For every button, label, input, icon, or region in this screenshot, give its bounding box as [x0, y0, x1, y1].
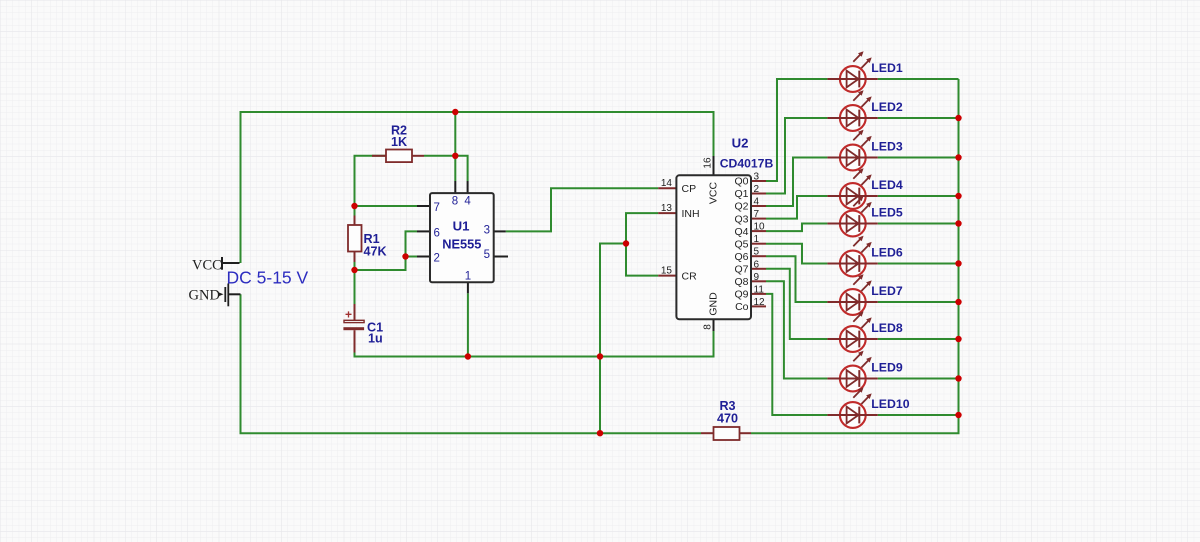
svg-text:12: 12 — [754, 297, 766, 308]
svg-text:8: 8 — [703, 324, 714, 330]
LED1 — [827, 51, 902, 92]
LED3 — [827, 130, 902, 171]
svg-text:Q4: Q4 — [734, 226, 748, 238]
svg-text:U1: U1 — [453, 219, 470, 234]
svg-text:LED2: LED2 — [871, 100, 903, 114]
wire U2 Q9 to LED10 — [766, 294, 827, 415]
svg-text:GND: GND — [189, 288, 220, 304]
svg-text:GND: GND — [708, 292, 720, 316]
svg-text:470: 470 — [717, 412, 738, 426]
svg-text:6: 6 — [434, 227, 440, 239]
svg-text:1: 1 — [465, 270, 471, 282]
LED6 — [827, 236, 902, 277]
wire U2 Q6 to LED7 — [766, 256, 827, 302]
svg-text:INH: INH — [682, 208, 700, 220]
wire LED2 cathode to bus — [878, 117, 959, 119]
svg-text:Q8: Q8 — [734, 276, 748, 288]
wire R2 left to R1 top / U1 pin7 — [355, 156, 418, 206]
wire LED9 cathode to bus — [878, 378, 959, 380]
junction LED5 bus — [955, 220, 961, 226]
svg-text:CR: CR — [682, 270, 698, 282]
svg-text:LED1: LED1 — [871, 61, 903, 75]
svg-text:DC 5-15 V: DC 5-15 V — [227, 268, 309, 288]
svg-text:LED6: LED6 — [871, 245, 903, 259]
wire node to U1 pin6 — [355, 231, 418, 270]
svg-text:CP: CP — [682, 183, 697, 195]
wire LED5 cathode to bus — [878, 223, 959, 225]
wire LED7 cathode to bus — [878, 301, 959, 303]
wire LED10 cathode to bus — [878, 414, 959, 416]
wire U2 Q1 to LED2 — [766, 118, 827, 194]
svg-text:+: + — [345, 308, 352, 322]
wire bottom ground rail left — [241, 294, 702, 433]
svg-text:LED7: LED7 — [871, 284, 903, 298]
wire U2 Q4 to LED5 — [766, 224, 827, 232]
junction LED8 bus — [955, 336, 961, 342]
svg-text:LED8: LED8 — [871, 321, 903, 335]
junction LED6 bus — [955, 260, 961, 266]
junction LED10 bus — [955, 412, 961, 418]
junction VCC / R2 / U1-4 — [452, 153, 458, 159]
junction LED3 bus — [955, 154, 961, 160]
svg-text:3: 3 — [754, 172, 760, 183]
junction LED2 bus — [955, 115, 961, 121]
svg-text:Q5: Q5 — [734, 238, 748, 250]
junction R1 / C1 node — [351, 267, 357, 273]
svg-text:7: 7 — [754, 209, 760, 220]
LED7 — [827, 274, 902, 315]
svg-text:14: 14 — [661, 178, 673, 189]
wire U2 Q7 to LED8 — [766, 269, 827, 339]
LED4 — [827, 168, 902, 209]
junction VCC top / U1-8 — [452, 109, 458, 115]
wire U2 Q5 to LED6 — [766, 244, 827, 264]
svg-text:15: 15 — [661, 265, 673, 276]
wire VCC to U1 pin4 — [455, 156, 467, 181]
svg-text:6: 6 — [754, 259, 760, 270]
svg-text:2: 2 — [434, 253, 440, 265]
wire U2 Q2 to LED3 — [766, 158, 827, 207]
svg-text:Q2: Q2 — [734, 201, 748, 213]
wire R1 top stub gap — [354, 206, 356, 216]
svg-text:5: 5 — [754, 247, 760, 258]
IC U2 CD4017B — [658, 136, 773, 332]
wire U2 INH to CR tie — [626, 213, 658, 276]
svg-text:Co: Co — [735, 301, 749, 313]
junction LED4 bus — [955, 193, 961, 199]
svg-text:2: 2 — [754, 184, 760, 195]
junction LED9 bus — [955, 375, 961, 381]
svg-text:5: 5 — [484, 249, 490, 261]
svg-text:LED10: LED10 — [871, 397, 909, 411]
svg-text:Q0: Q0 — [734, 176, 748, 188]
resistor R1 (47K) — [348, 216, 387, 263]
resistor R3 (470) — [701, 399, 751, 440]
svg-text:16: 16 — [703, 157, 714, 169]
wire U1 pin1 to mid ground — [467, 293, 469, 356]
wire bottom ground rail right to LED bus — [751, 79, 959, 433]
port VCC — [192, 257, 240, 274]
svg-text:1u: 1u — [368, 332, 383, 346]
wire R1 bottom to node — [354, 262, 356, 270]
LED10 — [827, 387, 909, 428]
svg-text:Q9: Q9 — [734, 289, 748, 301]
wire U1 pin3 to U2 CP — [506, 188, 658, 231]
svg-text:LED3: LED3 — [871, 139, 903, 153]
junction U1 pin2/6 node — [402, 253, 408, 259]
svg-text:LED5: LED5 — [871, 205, 903, 219]
svg-text:4: 4 — [754, 197, 760, 208]
LED5 — [827, 196, 902, 237]
svg-text:13: 13 — [661, 203, 673, 214]
svg-text:Q3: Q3 — [734, 213, 748, 225]
svg-text:8: 8 — [452, 196, 458, 208]
wire LED1 cathode to bus — [878, 78, 959, 80]
svg-text:7: 7 — [434, 202, 440, 214]
wire C1 bottom to mid ground — [355, 331, 714, 357]
wire INH/CR tie to ground rail — [600, 244, 626, 434]
svg-text:Q7: Q7 — [734, 264, 748, 276]
op-amp/timer U1 NE555 — [417, 181, 508, 293]
wire LED4 cathode to bus — [878, 195, 959, 197]
svg-text:1K: 1K — [391, 135, 407, 149]
junction LED7 bus — [955, 299, 961, 305]
svg-text:VCC: VCC — [708, 181, 720, 204]
svg-text:1: 1 — [754, 234, 760, 245]
wire LED6 cathode to bus — [878, 263, 959, 265]
svg-text:9: 9 — [754, 272, 760, 283]
wire VCC branch to U1 pins 8/4 — [454, 112, 456, 181]
svg-text:U2: U2 — [732, 136, 749, 151]
junction INH/CR tie — [623, 240, 629, 246]
junction mid ground / rail — [597, 353, 603, 359]
svg-text:47K: 47K — [364, 245, 387, 259]
svg-text:CD4017B: CD4017B — [720, 156, 774, 170]
svg-text:NE555: NE555 — [442, 237, 481, 252]
LED9 — [827, 351, 902, 392]
capacitor C1 (1u, polarized) — [343, 304, 383, 353]
svg-text:10: 10 — [754, 222, 766, 233]
svg-text:LED9: LED9 — [871, 360, 903, 374]
junction R2 / R1 / U1-7 — [351, 203, 357, 209]
wire LED3 cathode to bus — [878, 157, 959, 159]
wire U2 Q0 to LED1 — [766, 79, 827, 181]
svg-text:3: 3 — [484, 225, 490, 237]
LED8 — [827, 311, 902, 352]
junction U1 pin1 ground — [465, 353, 471, 359]
svg-text:VCC: VCC — [192, 258, 222, 274]
svg-text:4: 4 — [464, 196, 471, 208]
port GND — [189, 284, 241, 307]
wire node to C1 top — [354, 270, 356, 304]
LED2 — [827, 90, 902, 131]
svg-text:11: 11 — [754, 284, 765, 295]
svg-text:Q6: Q6 — [734, 251, 748, 263]
wire R2 right to VCC — [424, 155, 455, 157]
junction bottom rail — [597, 430, 603, 436]
wire VCC rail top — [241, 112, 714, 263]
wire node to U1 pin2 — [406, 256, 418, 258]
wire LED8 cathode to bus — [878, 338, 959, 340]
resistor R2 (1K) — [372, 124, 424, 163]
wire U2 Q3 to LED4 — [766, 196, 827, 219]
svg-text:Q1: Q1 — [734, 188, 748, 200]
wire U2 Q8 to LED9 — [766, 281, 827, 378]
svg-text:LED4: LED4 — [871, 178, 903, 192]
